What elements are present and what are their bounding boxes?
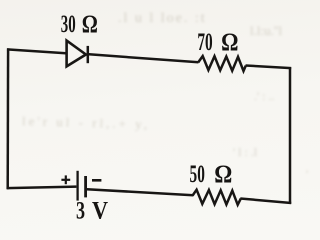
wire right vertical <box>289 67 292 204</box>
wire bottom-right horizontal <box>240 199 291 204</box>
battery B1 positive long plate <box>76 171 78 201</box>
svg-text:Ω: Ω <box>82 10 98 38</box>
wire left vertical <box>6 48 9 189</box>
svg-text:V: V <box>92 197 108 225</box>
faint page bleed-through text top right <box>250 23 282 39</box>
svg-text:30: 30 <box>61 9 76 38</box>
wire 70-ohm to top-right corner <box>246 66 292 69</box>
faint page bleed-through text above 50ohm <box>233 145 257 160</box>
faint page bleed-through text mid left <box>22 113 151 133</box>
diode D1 cathode bar <box>87 46 90 63</box>
battery plus sign horizontal <box>61 179 70 181</box>
diode D1 triangle <box>67 41 86 67</box>
wire bottom-left horizontal <box>7 187 77 189</box>
battery B1 negative short plate <box>84 176 87 197</box>
faint page bleed-through text right of circuit <box>254 89 275 104</box>
svg-text:3: 3 <box>76 196 85 225</box>
svg-text:50: 50 <box>190 159 205 188</box>
svg-text:Ω: Ω <box>214 161 232 189</box>
wire battery to 50-ohm resistor <box>87 189 193 195</box>
battery plus sign vertical <box>65 175 67 184</box>
faint speck right edge <box>306 167 308 182</box>
battery minus sign <box>92 179 101 182</box>
resistor R2 50-ohm zigzag <box>193 190 241 205</box>
wire diode to 70-ohm resistor <box>89 54 199 62</box>
svg-text:70: 70 <box>197 27 212 56</box>
faint page bleed-through text top middle <box>118 11 207 27</box>
wire top-left horizontal <box>7 49 66 53</box>
svg-text:Ω: Ω <box>221 28 238 56</box>
resistor R1 70-ohm zigzag <box>198 56 246 71</box>
